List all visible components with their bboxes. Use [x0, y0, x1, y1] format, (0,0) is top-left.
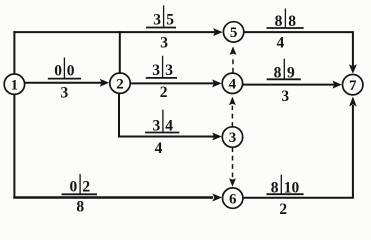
wire riser node1 to top line	[13, 32, 15, 74]
label edge 6-7 times 8|10	[267, 175, 304, 197]
arrowhead dummy into node 6	[229, 178, 236, 187]
svg-text:1: 1	[11, 77, 19, 93]
svg-text:2: 2	[160, 84, 168, 101]
svg-text:3: 3	[160, 35, 168, 52]
arrowhead into node 7 from bottom	[349, 97, 357, 107]
dashed dummy 3-6	[232, 147, 234, 177]
svg-text:3: 3	[281, 88, 289, 105]
svg-text:0: 0	[54, 63, 62, 80]
svg-text:2: 2	[279, 201, 287, 216]
node 4 circle	[222, 73, 242, 93]
label edge 5-7 times 8|8	[267, 9, 304, 31]
label edge 1-6 times 0|2	[62, 174, 98, 196]
svg-text:3: 3	[165, 62, 173, 79]
node 1 circle	[4, 74, 24, 94]
svg-text:2: 2	[82, 179, 90, 196]
node 5 circle	[223, 22, 243, 42]
wire elbow 1-6 vertical	[13, 94, 15, 197]
svg-text:6: 6	[229, 191, 237, 207]
node 2 circle	[110, 73, 130, 93]
svg-text:3: 3	[152, 62, 160, 79]
svg-text:5: 5	[166, 12, 174, 29]
svg-text:0: 0	[69, 179, 77, 196]
svg-text:4: 4	[229, 77, 237, 93]
svg-text:4: 4	[277, 34, 285, 51]
arrowhead into node 2	[100, 79, 110, 87]
label edge 4-7 times 8|9	[267, 59, 301, 82]
dashed dummy 3-4	[231, 106, 233, 127]
arrowhead dummy into node 5	[230, 46, 237, 55]
svg-text:5: 5	[230, 25, 238, 41]
svg-text:3: 3	[61, 85, 69, 102]
svg-text:8: 8	[76, 199, 84, 216]
arrowhead into node 6	[212, 194, 222, 202]
wire edge 4-7	[243, 84, 334, 86]
wire bottom edge 1-6 horizontal	[13, 196, 213, 199]
svg-text:3: 3	[153, 12, 161, 29]
arrowhead into node 5	[213, 28, 223, 36]
label edge 2-3 times 3|4	[145, 110, 179, 135]
label edge 1-2 times 0|0	[48, 58, 81, 80]
node 7 circle	[343, 75, 363, 95]
svg-text:3: 3	[229, 130, 237, 146]
node 6 circle	[223, 188, 243, 208]
wire top line into node 5	[14, 31, 214, 33]
wire edge 2-4	[130, 82, 214, 84]
wire elbow 2-3	[119, 93, 213, 136]
arrowhead into node 7 from left	[332, 81, 342, 89]
arrowhead into node 3	[212, 133, 222, 141]
svg-text:7: 7	[349, 78, 357, 94]
dashed dummy 4-5	[232, 56, 234, 73]
wire elbow 6-7	[243, 106, 353, 198]
arrowhead into node 7 from top	[349, 64, 357, 74]
arrowhead dummy into node 4	[229, 97, 236, 106]
wire riser node2 to top line	[119, 32, 121, 73]
svg-text:4: 4	[155, 140, 163, 157]
label edge 2-5 times 3|5	[146, 5, 176, 28]
svg-text:2: 2	[116, 76, 124, 92]
wire edge 1-2	[25, 82, 101, 84]
label edge 2-4 times 3|3	[146, 56, 177, 79]
svg-text:0: 0	[67, 63, 75, 80]
wire elbow 5-7	[244, 32, 353, 65]
arrowhead into node 4	[212, 79, 222, 87]
node 3 circle	[222, 127, 242, 147]
